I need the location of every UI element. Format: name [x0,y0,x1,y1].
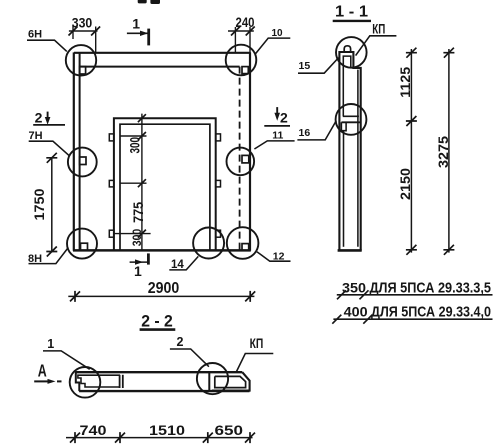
svg-text:740: 740 [80,422,107,438]
svg-text:775: 775 [131,201,146,222]
svg-text:300: 300 [130,228,144,246]
svg-text:15: 15 [299,60,311,72]
svg-text:ДЛЯ 5ПСА 29.33.3,5: ДЛЯ 5ПСА 29.33.3,5 [370,279,492,296]
svg-text:240: 240 [236,15,255,30]
svg-text:1: 1 [134,263,142,279]
svg-text:2150: 2150 [397,168,413,200]
svg-text:2: 2 [35,109,43,125]
svg-text:10: 10 [271,28,283,39]
svg-text:14: 14 [171,257,184,271]
svg-text:1125: 1125 [397,67,413,98]
svg-text:2 - 2: 2 - 2 [141,312,173,331]
svg-text:12: 12 [273,251,285,263]
svg-text:2: 2 [280,109,288,125]
svg-text:2900: 2900 [148,280,180,297]
svg-text:ДЛЯ 5ПСА 29.33.4,0: ДЛЯ 5ПСА 29.33.4,0 [371,303,491,320]
svg-text:КП: КП [372,21,385,37]
svg-text:7Н: 7Н [28,130,42,142]
svg-text:6Н: 6Н [28,28,42,40]
svg-text:1510: 1510 [149,422,185,438]
svg-text:1: 1 [47,337,54,351]
svg-text:А: А [38,361,47,381]
svg-text:КП: КП [250,336,264,351]
svg-text:8Н: 8Н [28,253,42,265]
svg-text:3275: 3275 [435,136,451,168]
svg-text:2: 2 [177,335,184,349]
svg-text:350: 350 [342,279,366,295]
svg-text:400: 400 [344,303,368,319]
svg-text:1: 1 [132,15,140,31]
svg-text:16: 16 [299,127,311,139]
svg-text:1750: 1750 [31,188,47,220]
svg-text:300: 300 [128,137,143,154]
svg-text:330: 330 [72,16,93,31]
svg-text:650: 650 [215,422,244,438]
svg-text:1 - 1: 1 - 1 [335,3,368,20]
svg-text:11: 11 [272,130,283,142]
